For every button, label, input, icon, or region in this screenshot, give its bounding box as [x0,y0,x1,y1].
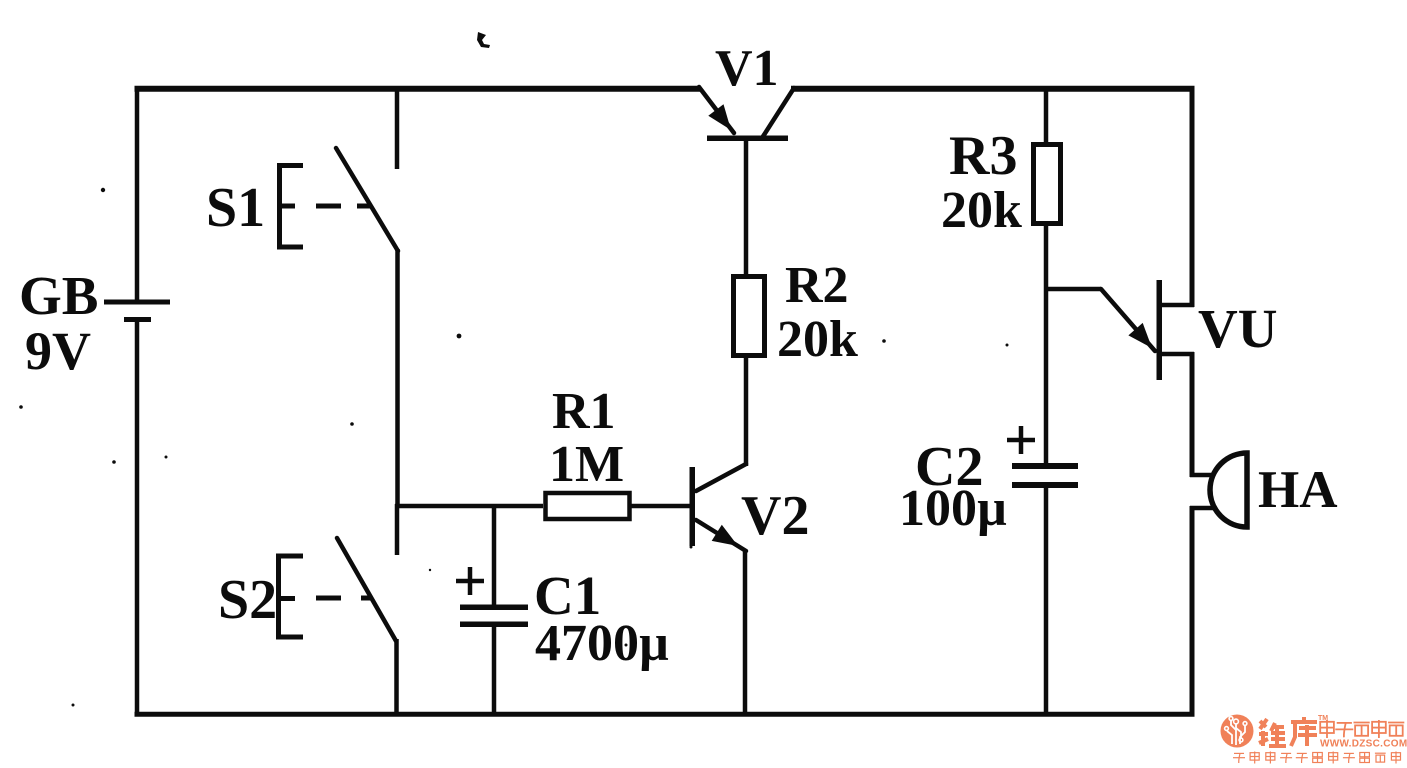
wire C1 bottom lead [492,627,497,715]
transistor V2 emitter lead [743,549,748,715]
resistor R3 body [1034,145,1061,224]
capacitor C2 top plate [1012,463,1078,469]
switch S1 actuator dashes [316,204,341,209]
wire right rail lower [1190,506,1195,716]
switch S1 lever [336,148,398,251]
transistor V1 base bar [707,136,788,142]
svg-text:R2: R2 [785,257,849,314]
speaker HA bottom lead [1190,506,1220,511]
wire left rail upper [135,86,140,300]
watermark sub brand characters [1320,720,1334,738]
switch S2 lever [337,538,396,641]
svg-text:S2: S2 [218,569,277,631]
svg-text:GB: GB [19,265,98,326]
resistor R1 body [546,493,630,519]
C2 polarity plus [1007,438,1035,443]
svg-text:20k: 20k [941,182,1022,239]
speckle marks (scan noise) [477,32,490,48]
watermark logo circle [1221,715,1254,748]
svg-text:HA: HA [1258,461,1338,519]
switch S1 top contact wire [395,88,400,169]
wire R3 to node and C2 [1044,223,1049,465]
transistor V1 emitter arrowhead [708,104,731,130]
battery GB short plate [124,317,151,322]
switch S2 actuator bracket [279,556,304,637]
transistor VU emitter diagonal [1101,289,1155,351]
wire top rail right segment [791,86,1195,92]
transistor VU lower lead [1159,352,1194,357]
transistor V1 collector diagonal [762,88,794,138]
svg-text:R1: R1 [552,383,616,440]
transistor V2 emitter diagonal [696,520,746,551]
switch S2 actuator dashes [316,596,341,601]
wire C1 top lead [492,504,497,607]
transistor V1 base lead [744,140,749,276]
transistor VU emitter arrowhead [1128,323,1152,348]
svg-text:100µ: 100µ [899,480,1007,537]
svg-text:R3: R3 [949,125,1017,187]
capacitor C1 top plate [460,605,528,611]
transistor VU body bar [1157,280,1163,380]
svg-text:WWW.DZSC.COM: WWW.DZSC.COM [1320,739,1407,750]
transistor V1 emitter diagonal [699,87,734,133]
switch S2 top contact wire [395,504,400,555]
wire base node to R1 [395,504,543,509]
wire right rail upper [1190,86,1195,307]
transistor VU upper lead [1159,303,1194,308]
battery GB long plate [104,300,170,305]
capacitor C2 bottom plate [1012,482,1078,488]
wire bottom rail [135,712,1195,717]
svg-text:V1: V1 [715,40,779,97]
watermark brand characters [1259,719,1286,746]
transistor V2 emitter arrowhead [712,525,738,546]
svg-text:S1: S1 [206,177,265,239]
wire R2 to V2 collector [744,356,749,466]
wire C2 bottom lead [1044,488,1049,715]
wire right rail middle [1190,352,1195,477]
transistor VU emitter lead [1044,287,1101,292]
wire R1 to V2 base [630,504,690,509]
wire left rail lower [135,321,140,716]
C1 polarity plus [456,579,484,584]
capacitor C1 bottom plate [460,622,528,628]
svg-text:1M: 1M [549,436,624,493]
svg-text:4700µ: 4700µ [535,615,669,672]
transistor V2 base bar [690,467,696,546]
switch S2 lower wire [394,639,399,715]
svg-text:20k: 20k [777,311,858,368]
wire top rail to R3 [1044,87,1049,144]
svg-text:V2: V2 [741,485,809,547]
svg-text:9V: 9V [25,321,91,381]
watermark slogan characters [1233,753,1245,763]
transistor V2 collector diagonal [696,464,746,491]
resistor R2 body [734,277,765,356]
wire top rail left segment [135,86,702,92]
switch S1 actuator bracket [280,166,304,248]
switch S1 lower wire [395,249,400,508]
svg-text:VU: VU [1198,298,1277,359]
speaker HA dome [1210,453,1247,527]
speaker HA top lead [1190,473,1217,478]
